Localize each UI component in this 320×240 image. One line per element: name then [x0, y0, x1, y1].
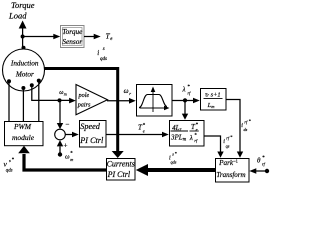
torque-to-current block 4Lr/3PLm	[170, 121, 205, 147]
svg-text:Induction: Induction	[10, 60, 39, 68]
pole pairs gain triangle	[76, 85, 108, 115]
svg-text:Load: Load	[8, 11, 27, 21]
node phase a	[7, 79, 11, 83]
wire omega to summer	[59, 100, 61, 124]
svg-text:Speed: Speed	[80, 122, 100, 131]
summer S1	[55, 129, 66, 140]
svg-text:PI Ctrl: PI Ctrl	[107, 170, 131, 179]
svg-text:λ: λ	[182, 86, 186, 94]
induction motor	[3, 49, 45, 91]
svg-text:ω: ω	[65, 154, 70, 161]
node speed sensor tap	[30, 83, 34, 87]
svg-text:r: r	[129, 91, 131, 96]
svg-text:Currents: Currents	[107, 160, 135, 169]
svg-text:s: s	[103, 47, 105, 52]
svg-text:ω: ω	[124, 87, 129, 95]
wire lambda to torque-current block	[184, 100, 186, 114]
svg-text:Torque: Torque	[62, 27, 83, 36]
currents PI controller box	[107, 159, 136, 181]
wire sensor output Te	[84, 36, 95, 38]
wire torque load vertical with up arrow	[22, 27, 24, 48]
svg-text:m: m	[64, 91, 67, 96]
svg-text:pole: pole	[78, 92, 90, 99]
svg-text:module: module	[12, 133, 35, 142]
svg-text:e: e	[143, 128, 145, 133]
svg-text:θ: θ	[257, 157, 261, 165]
svg-text:m: m	[70, 157, 73, 162]
svg-text:τr s+1: τr s+1	[205, 92, 221, 99]
wire ids ref	[226, 100, 240, 153]
svg-text:s: s	[9, 158, 11, 163]
wire voltage command to PWM (thick)	[24, 154, 106, 170]
svg-text:PWM: PWM	[13, 122, 32, 131]
node motor top	[22, 46, 26, 50]
flux program axes	[152, 90, 154, 112]
svg-text:qds: qds	[6, 168, 13, 173]
svg-text:Transform: Transform	[216, 171, 245, 179]
node torque branch	[21, 35, 25, 39]
node phase c	[37, 79, 41, 83]
wire speed sensor omega_m	[32, 85, 71, 100]
svg-text:pairs: pairs	[77, 101, 91, 108]
speed PI controller box	[80, 121, 107, 148]
svg-text:i: i	[97, 49, 99, 57]
node omega ref terminal	[58, 152, 62, 156]
wire current command from park (thick)	[147, 168, 215, 172]
svg-text:qds: qds	[100, 57, 107, 62]
node omega branch	[58, 98, 62, 102]
wire iqs ref	[204, 136, 221, 152]
node phase b	[21, 86, 25, 90]
wire phase a	[8, 81, 10, 121]
flux program block (field weakening)	[137, 85, 173, 117]
pwm module box	[5, 122, 44, 146]
svg-text:PI Ctrl: PI Ctrl	[79, 136, 104, 145]
svg-text:qs: qs	[226, 144, 230, 149]
wire omega_r	[107, 100, 130, 102]
svg-text:Motor: Motor	[15, 71, 34, 79]
svg-text:Lm: Lm	[207, 102, 215, 109]
svg-text:ds: ds	[244, 127, 248, 132]
node theta ref terminal	[265, 169, 269, 173]
tau_r flux-current block	[201, 89, 227, 111]
svg-text:+: +	[64, 142, 68, 150]
svg-text:Sensor: Sensor	[62, 37, 82, 46]
torque sensor box	[61, 26, 85, 48]
wire lambda ref	[172, 100, 194, 102]
wire theta ref into park	[256, 170, 267, 172]
wire stator currents measurement (thick)	[44, 69, 118, 152]
svg-text:−: −	[66, 121, 70, 129]
wire phase b	[22, 88, 24, 122]
wire omega ref into summer	[59, 147, 61, 155]
node lambda branch	[183, 98, 187, 102]
svg-text:λ: λ	[189, 134, 193, 142]
wire phase c	[38, 81, 40, 122]
svg-text:qds: qds	[171, 160, 177, 165]
wire torque command Te*	[106, 134, 163, 136]
park inverse transform box	[216, 159, 250, 183]
flux program curve	[139, 95, 167, 108]
wire summer to speed PI	[65, 134, 73, 136]
svg-text:Torque: Torque	[11, 0, 35, 10]
wire to torque sensor	[23, 36, 55, 38]
